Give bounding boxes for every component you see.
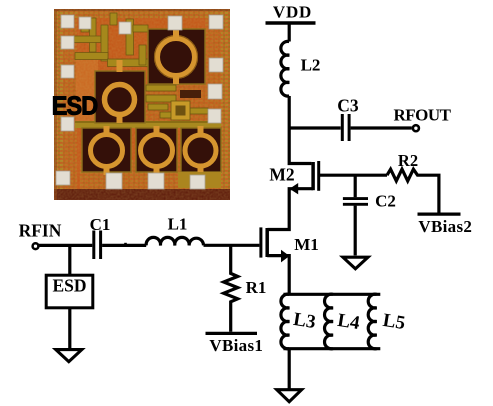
svg-text:RFIN: RFIN [19,220,62,240]
svg-text:L5: L5 [381,310,406,334]
svg-text:M1: M1 [294,235,319,254]
svg-text:C2: C2 [375,192,396,211]
svg-text:ESD: ESD [52,92,97,120]
svg-text:R1: R1 [246,278,267,297]
svg-text:M2: M2 [269,165,294,185]
svg-text:VDD: VDD [273,3,312,22]
svg-text:L2: L2 [301,56,321,75]
svg-text:L3: L3 [292,309,317,333]
svg-text:RFOUT: RFOUT [394,106,452,125]
svg-text:VBias2: VBias2 [418,217,472,236]
svg-text:L4: L4 [336,310,362,334]
svg-text:L1: L1 [168,215,188,234]
svg-text:R2: R2 [398,151,418,170]
svg-text:C3: C3 [337,96,359,116]
svg-text:C1: C1 [90,215,111,234]
svg-text:VBias1: VBias1 [209,336,263,355]
svg-text:ESD: ESD [52,276,86,296]
